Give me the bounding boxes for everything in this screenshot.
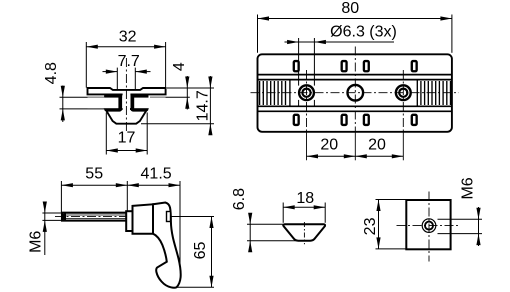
svg-text:M6: M6 [28,231,45,253]
svg-text:32: 32 [119,29,137,46]
svg-text:20: 20 [320,136,338,153]
svg-text:7.7: 7.7 [118,53,140,70]
svg-text:55: 55 [85,166,103,183]
svg-text:6.8: 6.8 [231,188,248,210]
svg-text:65: 65 [192,242,209,260]
svg-text:4: 4 [171,62,188,71]
svg-text:23: 23 [362,217,379,235]
svg-text:14.7: 14.7 [194,90,211,121]
svg-text:4.8: 4.8 [43,62,60,84]
svg-text:18: 18 [296,190,314,207]
svg-text:M6: M6 [460,177,477,199]
svg-text:41.5: 41.5 [141,166,172,183]
svg-text:20: 20 [368,136,386,153]
svg-text:80: 80 [341,0,359,17]
svg-text:Ø6.3 (3x): Ø6.3 (3x) [330,23,397,40]
svg-text:17: 17 [118,129,136,146]
